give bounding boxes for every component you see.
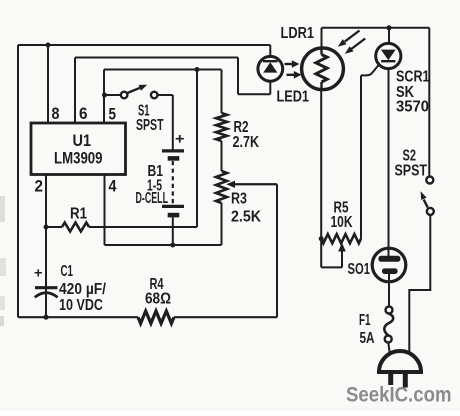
svg-text:4: 4: [109, 178, 118, 196]
svg-text:SO1: SO1: [348, 261, 371, 278]
svg-text:420 µF/: 420 µF/: [59, 281, 106, 298]
svg-text:8: 8: [52, 105, 60, 123]
svg-text:5A: 5A: [360, 330, 375, 347]
svg-text:+: +: [34, 266, 43, 281]
svg-text:2.7K: 2.7K: [233, 134, 260, 151]
svg-text:LDR1: LDR1: [281, 25, 315, 42]
svg-text:10K: 10K: [331, 214, 353, 231]
svg-text:C1: C1: [61, 263, 74, 280]
svg-text:SeekIC.com: SeekIC.com: [346, 384, 452, 407]
svg-text:R3: R3: [231, 191, 247, 208]
svg-text:F1: F1: [359, 312, 371, 329]
svg-text:+: +: [175, 132, 185, 148]
svg-text:6: 6: [79, 105, 88, 123]
svg-text:LED1: LED1: [277, 89, 310, 106]
svg-text:SPST: SPST: [136, 117, 164, 134]
svg-text:D-CELL: D-CELL: [136, 190, 169, 207]
svg-text:68Ω: 68Ω: [145, 291, 171, 308]
svg-text:10 VDC: 10 VDC: [59, 297, 103, 314]
svg-text:2.5K: 2.5K: [231, 209, 261, 226]
svg-text:3570: 3570: [396, 98, 429, 115]
svg-text:R1: R1: [70, 206, 87, 223]
svg-text:2: 2: [35, 178, 44, 196]
svg-text:LM3909: LM3909: [54, 150, 103, 168]
svg-text:SPST: SPST: [395, 162, 428, 179]
svg-text:SCR1: SCR1: [396, 69, 430, 86]
svg-text:U1: U1: [73, 132, 92, 150]
svg-text:5: 5: [109, 106, 117, 124]
